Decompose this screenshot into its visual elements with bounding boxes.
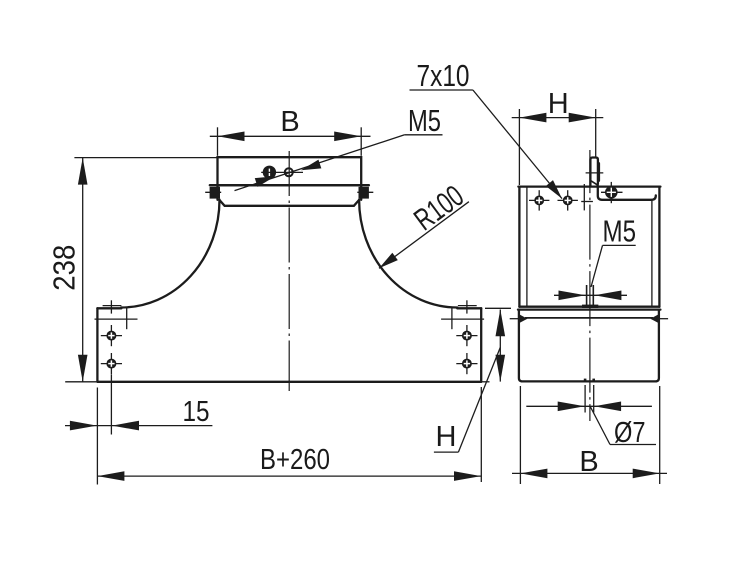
lower box [519, 310, 659, 382]
svg-text:B+260: B+260 [260, 444, 330, 476]
right inner wall [651, 201, 653, 307]
clip triangle left [520, 315, 528, 323]
base bottom edge [97, 381, 481, 383]
svg-text:H: H [436, 421, 457, 453]
neck side edges down to curve start [216, 185, 218, 200]
slot hole 2 [563, 196, 573, 206]
svg-text:238: 238 [48, 245, 82, 291]
svg-text:M5: M5 [603, 215, 637, 249]
H double arrow right of front view [485, 307, 511, 309]
left bracket top screw cross [110, 300, 112, 313]
svg-text:B: B [280, 106, 299, 138]
svg-text:7x10: 7x10 [417, 59, 470, 93]
bolt hole left lower [106, 359, 116, 369]
R100 left curve [121, 200, 219, 308]
svg-text:M5: M5 [408, 104, 441, 138]
bolt hole right upper [462, 331, 472, 341]
M5 hole section lines [586, 285, 588, 307]
left outer edge upper [518, 187, 520, 307]
right bracket top screw cross [466, 300, 468, 313]
R100 right curve [359, 200, 457, 308]
bottom hole edge marks [584, 379, 587, 382]
aux vertical near tab [583, 184, 585, 210]
right bracket [441, 318, 484, 320]
folded seam [598, 186, 656, 200]
neck screw filled head [263, 166, 276, 179]
collar left cleat [210, 187, 220, 199]
clip triangle right [650, 315, 658, 323]
collar top edge [210, 184, 369, 186]
DIMENSION B top [217, 127, 219, 156]
svg-text:15: 15 [183, 396, 210, 428]
neck screw small circle [285, 168, 293, 176]
DIMENSION H top [518, 109, 520, 185]
base left edge [96, 308, 98, 382]
left inner wall [526, 188, 528, 307]
bolt hole right lower [462, 359, 472, 369]
neck rectangle [218, 157, 362, 185]
collar right cleat [359, 187, 369, 199]
right outer edge upper [658, 187, 660, 307]
side centerline [589, 150, 591, 421]
tab [590, 158, 598, 187]
lower box inner seam line [525, 317, 653, 319]
DIMENSION 15 [96, 388, 98, 485]
svg-text:Ø7: Ø7 [614, 417, 646, 449]
DIMENSION B bottom [519, 386, 521, 484]
DIMENSION 238 [74, 157, 216, 159]
base left flange top [97, 307, 121, 309]
M5 position arrows [554, 294, 627, 296]
base right edge [480, 308, 482, 382]
svg-text:B: B [579, 446, 598, 478]
top right screw filled [605, 186, 618, 199]
slot hole 1 [534, 196, 544, 206]
bolt hole left upper [106, 331, 116, 341]
shelf double line [519, 306, 659, 308]
DIMENSION B+260 [480, 387, 482, 482]
collar bottom edge [220, 200, 359, 205]
base right flange top [457, 307, 481, 309]
svg-text:H: H [548, 88, 569, 120]
left bracket [95, 318, 138, 320]
top face [518, 185, 660, 187]
label R100 with leader [379, 202, 469, 269]
front centerline [288, 151, 290, 391]
DIMENSION O7 [584, 385, 586, 413]
